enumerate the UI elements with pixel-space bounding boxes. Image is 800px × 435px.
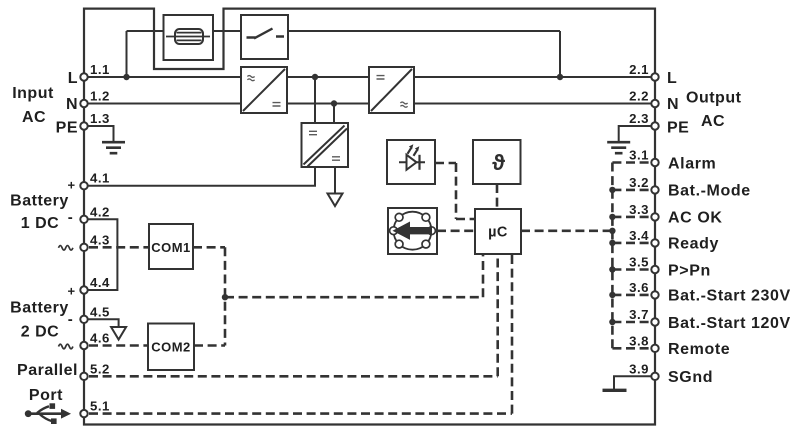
svg-text:4.5: 4.5 — [90, 304, 110, 319]
svg-text:4.6: 4.6 — [90, 331, 110, 346]
svg-text:Battery: Battery — [10, 300, 69, 317]
svg-text:Ready: Ready — [668, 236, 719, 253]
svg-text:1.2: 1.2 — [90, 89, 110, 104]
svg-text:3.9: 3.9 — [629, 361, 649, 376]
svg-text:ϑ: ϑ — [492, 150, 505, 175]
svg-text:4.2: 4.2 — [90, 204, 110, 219]
svg-text:Remote: Remote — [668, 341, 730, 358]
svg-text:3.1: 3.1 — [629, 148, 649, 163]
svg-text:-: - — [68, 209, 74, 226]
svg-text:AC: AC — [22, 109, 46, 126]
svg-text:L: L — [667, 70, 677, 87]
svg-text:Parallel: Parallel — [17, 362, 78, 379]
svg-text:3.8: 3.8 — [629, 333, 649, 348]
svg-text:COM2: COM2 — [151, 339, 191, 354]
svg-text:AC: AC — [701, 113, 725, 130]
svg-text:P>Pn: P>Pn — [668, 262, 711, 279]
svg-text:Output: Output — [686, 90, 742, 107]
svg-text:SGnd: SGnd — [668, 369, 713, 386]
svg-text:COM1: COM1 — [151, 240, 191, 255]
svg-text:2 DC: 2 DC — [21, 324, 59, 341]
svg-text:Battery: Battery — [10, 193, 69, 210]
svg-text:1 DC: 1 DC — [21, 215, 59, 232]
svg-text:AC OK: AC OK — [668, 210, 723, 227]
svg-text:1.1: 1.1 — [90, 62, 110, 77]
svg-text:4.1: 4.1 — [90, 171, 110, 186]
svg-text:2.1: 2.1 — [629, 62, 649, 77]
svg-text:2.3: 2.3 — [629, 111, 649, 126]
svg-text:3.7: 3.7 — [629, 307, 649, 322]
svg-text:Alarm: Alarm — [668, 155, 716, 172]
svg-text:4.3: 4.3 — [90, 232, 110, 247]
svg-text:µC: µC — [488, 225, 508, 241]
svg-text:2.2: 2.2 — [629, 89, 649, 104]
svg-text:+: + — [67, 284, 75, 299]
svg-text:5.2: 5.2 — [90, 361, 110, 376]
svg-text:Port: Port — [29, 387, 63, 404]
svg-text:Bat.-Start 230V: Bat.-Start 230V — [668, 288, 791, 305]
svg-text:-: - — [68, 311, 74, 328]
svg-text:4.4: 4.4 — [90, 275, 110, 290]
svg-text:3.5: 3.5 — [629, 255, 649, 270]
svg-text:Input: Input — [12, 85, 54, 102]
svg-text:N: N — [66, 96, 78, 113]
svg-text:5.1: 5.1 — [90, 399, 110, 414]
svg-text:3.4: 3.4 — [629, 228, 649, 243]
svg-text:Bat.-Start 120V: Bat.-Start 120V — [668, 315, 791, 332]
svg-text:3.2: 3.2 — [629, 175, 649, 190]
svg-text:3.3: 3.3 — [629, 202, 649, 217]
svg-text:1.3: 1.3 — [90, 111, 110, 126]
svg-text:Bat.-Mode: Bat.-Mode — [668, 183, 751, 200]
svg-text:PE: PE — [56, 120, 78, 137]
svg-text:PE: PE — [667, 120, 689, 137]
svg-text:L: L — [68, 70, 78, 87]
svg-text:+: + — [67, 178, 75, 193]
svg-text:3.6: 3.6 — [629, 280, 649, 295]
svg-text:N: N — [667, 96, 679, 113]
